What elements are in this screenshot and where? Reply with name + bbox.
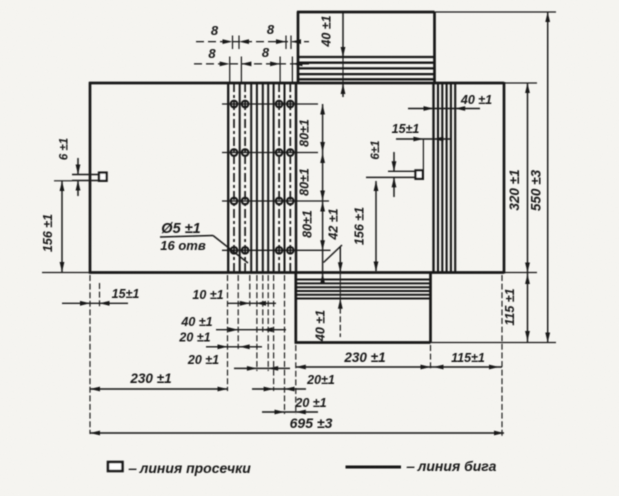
dimension 40±1 bottom	[216, 327, 286, 332]
wire bottom flap bottom edge	[295, 341, 431, 344]
label 20±1 third	[306, 373, 335, 387]
wire body bottom edge extension right	[504, 272, 537, 274]
label 6±1 left notch	[59, 138, 71, 160]
label 16 отв hole count	[160, 238, 206, 253]
label 40±1 bottom flap	[314, 310, 328, 342]
label 15±1 right notch	[392, 122, 420, 136]
label 695±3	[290, 415, 333, 431]
dimension 230±1 right	[296, 365, 431, 370]
label 15±1 bottom left	[112, 287, 140, 301]
label 156±1 left	[41, 214, 55, 252]
label 6±1 right notch	[370, 140, 382, 159]
crease lines top flap horizontal group	[298, 57, 435, 79]
dimension 40±1 bottom flap	[338, 247, 343, 337]
hole Ø5 #2	[242, 101, 249, 108]
dimension 230±1 left	[90, 387, 228, 392]
legend notch symbol (линия просечки)	[108, 462, 123, 471]
wire body bottom edge	[89, 271, 504, 274]
label 115±1 right vertical	[503, 288, 517, 325]
dimension 115±1 bottom right	[431, 365, 503, 370]
label 230±1 left	[129, 371, 171, 386]
wire bottom flap right edge	[429, 273, 432, 344]
label 230±1 right	[343, 350, 385, 365]
extension lines below drawing	[90, 275, 502, 436]
crease lines bottom flap horizontal group	[296, 280, 431, 299]
label 40±1 right cluster	[460, 93, 492, 107]
label 20±1 fourth	[294, 396, 326, 410]
hole row center lines	[222, 104, 331, 250]
legend crease line sample (линия бига)	[346, 466, 402, 469]
dimension 10±1	[228, 301, 276, 306]
dimension 20±1 first	[206, 344, 262, 349]
hole Ø5 #5	[231, 149, 238, 156]
crease lines left vertical cluster (линия бига)	[228, 83, 296, 273]
dimension 15±1 right notch	[396, 137, 450, 180]
label 550±3	[529, 169, 544, 211]
dimension 8 lower row line	[194, 57, 309, 84]
hole Ø5 #7	[276, 149, 283, 156]
label 20±1 first	[178, 331, 210, 345]
label 42±1	[327, 208, 341, 240]
dimension 8 upper row line	[196, 36, 309, 50]
hole Ø5 #14	[242, 247, 249, 254]
label 40±1 bottom	[180, 315, 212, 329]
dimension 15±1 bottom left	[62, 301, 128, 306]
wire top flap top edge	[297, 11, 435, 14]
hole Ø5 #8	[287, 149, 294, 156]
hole Ø5 #15	[276, 247, 283, 254]
notch symbol right (линия просечки)	[366, 170, 423, 178]
dimension 42±1 leader	[324, 245, 343, 263]
label 115±1 bottom right	[451, 351, 485, 365]
label 8 lower right	[262, 45, 270, 60]
dimension 20±1 third	[252, 387, 306, 392]
label 8 upper left	[211, 23, 219, 38]
hole Ø5 #13	[231, 247, 238, 254]
hole Ø5 #10	[242, 198, 249, 205]
wire top flap top edge extension right	[435, 11, 557, 13]
hole Ø5 #6	[242, 149, 249, 156]
crease lines right vertical cluster	[434, 83, 456, 273]
label 20±1 second	[187, 353, 219, 367]
label 320±1	[507, 169, 522, 210]
hole Ø5 #12	[287, 198, 294, 205]
wire body right edge	[503, 82, 506, 274]
dimension 156±1 left	[54, 181, 72, 272]
label 156±1 right	[353, 207, 367, 245]
label 8 upper right	[267, 22, 275, 37]
label 40±1 top flap	[320, 15, 334, 47]
hole Ø5 #9	[231, 198, 238, 205]
wire bottom flap left edge	[294, 273, 297, 344]
wire top flap left edge	[297, 12, 300, 84]
dimension 156±1 right	[374, 181, 379, 272]
dimension 20±1 fourth	[262, 410, 318, 415]
hole Ø5 #1	[231, 101, 238, 108]
dimension 80±1 chain line	[320, 104, 325, 283]
dimension 550±3	[545, 12, 550, 343]
wire body bottom edge extension left	[42, 272, 89, 274]
label 8 lower left	[208, 46, 216, 61]
label 80±1 first	[298, 119, 312, 147]
label Ø5±1 hole callout	[160, 221, 248, 263]
wire left panel left edge	[89, 82, 92, 274]
dimension 320±1	[525, 83, 530, 273]
legend label линия бига	[406, 458, 497, 474]
wire top flap right edge	[433, 12, 436, 84]
dimension 6±1 right notch	[392, 152, 397, 197]
dimension 115±1 right vertical	[525, 273, 530, 343]
hole Ø5 #16	[287, 247, 294, 254]
label 80±1 third	[301, 210, 315, 238]
legend label линия просечки	[128, 460, 251, 476]
wire bottom flap bottom edge extension right	[431, 342, 557, 344]
dimension 695±3	[90, 431, 504, 436]
dimension 6±1 left notch	[76, 158, 81, 196]
dimension 40±1 top flap	[341, 13, 346, 98]
wire body top edge	[89, 82, 504, 85]
hole Ø5 #4	[287, 101, 294, 108]
dimension 20±1 second	[234, 366, 290, 371]
notch symbol left (линия просечки)	[72, 173, 107, 181]
label 80±1 second	[298, 168, 312, 196]
hole Ø5 #11	[276, 198, 283, 205]
wire body top edge extension right	[504, 82, 537, 84]
label 10±1	[192, 288, 223, 302]
dimension 40±1 right cluster	[408, 106, 480, 111]
hole Ø5 #3	[276, 101, 283, 108]
